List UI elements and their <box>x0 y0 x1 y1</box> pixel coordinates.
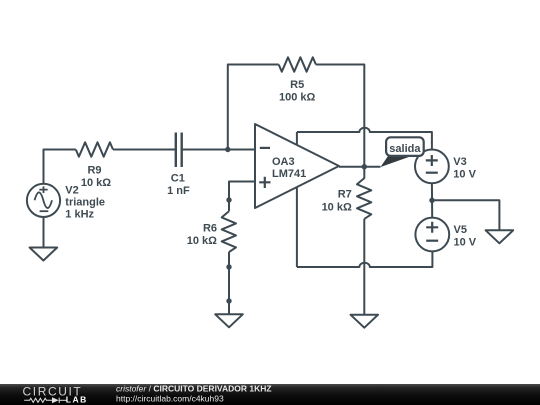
svg-text:LAB: LAB <box>66 394 88 404</box>
svg-text:V2: V2 <box>65 185 78 197</box>
svg-text:R6: R6 <box>203 223 217 235</box>
voltage source V5 <box>415 218 449 252</box>
wire op-amp output to salida tail <box>339 166 381 168</box>
op-amp OA3 <box>255 124 339 208</box>
svg-text:1 kHz: 1 kHz <box>65 208 94 220</box>
svg-text:V5: V5 <box>454 224 467 236</box>
wire C1 to op-amp inverting input <box>182 149 255 151</box>
svg-text:10 V: 10 V <box>454 237 477 249</box>
wire V2 bottom to ground <box>43 217 45 248</box>
wire V2 top to R9 <box>44 150 76 185</box>
svg-text:http://circuitlab.com/c4kuh93: http://circuitlab.com/c4kuh93 <box>116 394 224 404</box>
label R9 10 kOhm <box>81 164 111 188</box>
capacitor C1 <box>176 133 182 168</box>
label R6 10 kOhm <box>187 223 217 247</box>
node supply midpoint <box>429 198 434 203</box>
resistor R6 <box>222 211 236 252</box>
wire V3 bottom to junction to V5 top <box>431 183 433 218</box>
wire op-amp V+ pin to top rail <box>296 132 298 145</box>
voltage source V3 <box>415 150 449 184</box>
label R7 10 kOhm <box>322 189 352 214</box>
ground under R7 <box>351 315 379 328</box>
svg-text:C1: C1 <box>171 173 185 185</box>
wire feedback left vertical <box>228 65 279 150</box>
footer bar <box>0 384 540 405</box>
svg-text:cristofer / CIRCUITO DERIVADOR: cristofer / CIRCUITO DERIVADOR 1KHZ <box>116 384 272 394</box>
node R6 top <box>226 197 231 202</box>
ground under V2 <box>30 248 58 261</box>
wire R5 right then down to output node <box>316 65 364 167</box>
resistor R7 <box>357 167 371 219</box>
footer title and url <box>116 384 272 404</box>
svg-text:100 kΩ: 100 kΩ <box>279 92 316 104</box>
node R6 wire joint 2 <box>226 298 231 303</box>
wire R7 bottom through rail to ground <box>363 219 365 315</box>
footer CircuitLab logo <box>23 384 88 404</box>
svg-text:10 kΩ: 10 kΩ <box>322 201 352 213</box>
svg-text:10 V: 10 V <box>453 169 476 181</box>
svg-text:1 nF: 1 nF <box>167 185 190 197</box>
svg-text:R9: R9 <box>87 164 101 176</box>
resistor R5 <box>279 57 316 71</box>
node R6 wire joint 1 <box>226 264 231 269</box>
label V3 10 V <box>453 156 476 180</box>
voltage source V2 <box>27 184 60 217</box>
label C1 1 nF <box>167 173 190 198</box>
svg-text:triangle: triangle <box>65 197 105 209</box>
svg-text:OA3: OA3 <box>272 156 295 168</box>
node feedback junction <box>225 147 230 152</box>
label V2 triangle 1 kHz <box>65 185 105 221</box>
label V5 10 V <box>454 224 477 249</box>
ground under R6 <box>215 314 243 327</box>
wire top rail (V+ to V3+) with hop <box>297 128 432 150</box>
svg-text:R7: R7 <box>338 189 352 201</box>
wire op-amp V- pin to bottom rail <box>296 187 298 267</box>
wire R6 bottom to ground <box>228 252 230 314</box>
svg-text:10 kΩ: 10 kΩ <box>81 177 111 189</box>
ground right <box>486 230 514 243</box>
net label salida <box>381 137 424 167</box>
svg-text:10 kΩ: 10 kΩ <box>187 235 217 247</box>
wire R9 to C1 <box>113 149 176 151</box>
svg-text:salida: salida <box>389 143 421 155</box>
wire bottom rail (V- to V5-) with hop <box>297 251 433 267</box>
svg-text:LM741: LM741 <box>272 168 306 180</box>
wire op-amp + input to R6 <box>229 182 255 212</box>
wire midpoint to right ground <box>432 200 499 230</box>
resistor R9 <box>76 142 113 156</box>
svg-text:V3: V3 <box>453 156 466 168</box>
svg-text:R5: R5 <box>290 79 304 91</box>
node output junction <box>362 164 367 169</box>
label R5 100 kOhm <box>279 79 316 104</box>
label OA3 LM741 <box>272 156 306 180</box>
